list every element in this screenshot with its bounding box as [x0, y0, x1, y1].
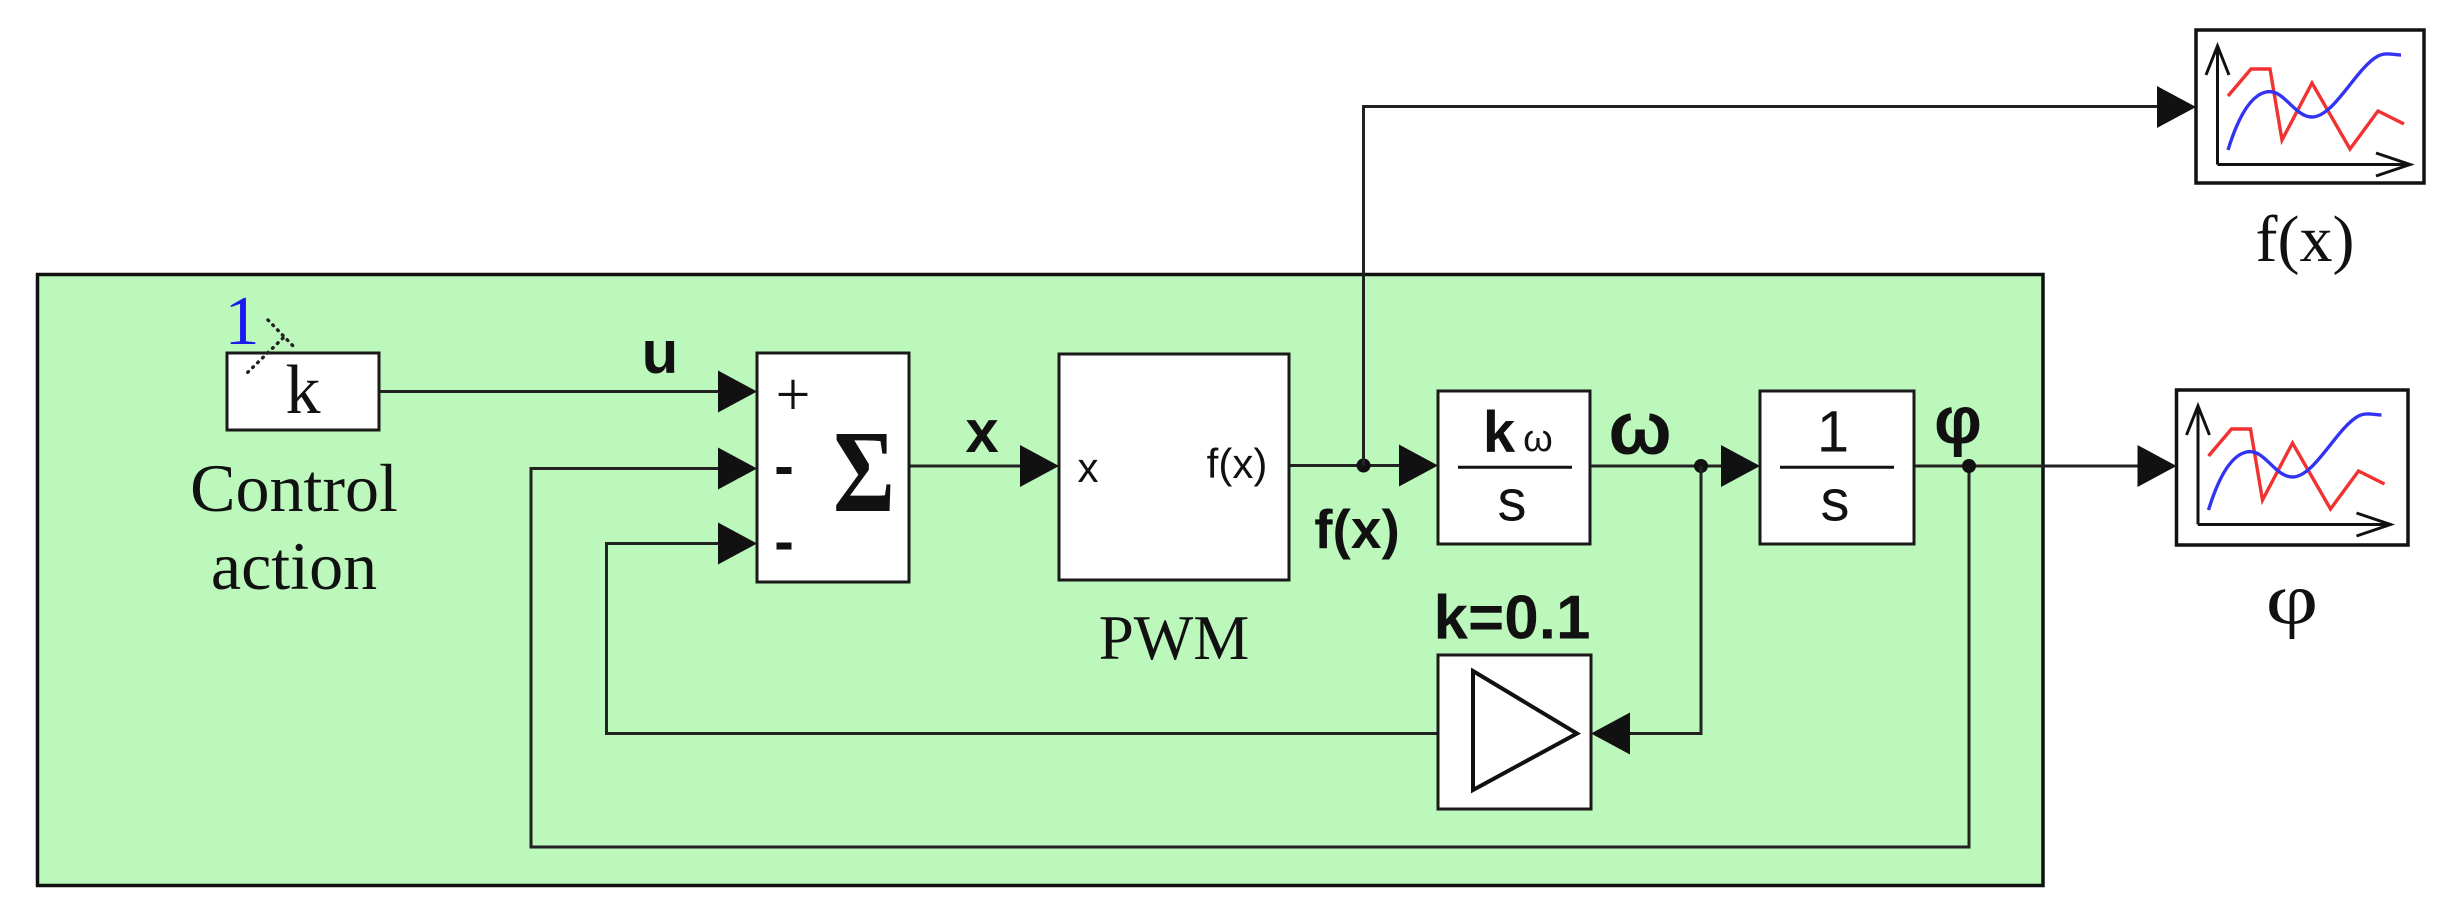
svg-text:action: action: [211, 528, 377, 604]
block k (control action gain): [227, 352, 379, 430]
svg-text:f(x): f(x): [1314, 498, 1400, 560]
wire: k block to sum input 1: [379, 371, 757, 413]
svg-text:1: 1: [225, 283, 260, 360]
svg-text:x: x: [965, 398, 998, 465]
wire: 1/s output to scope phi: [1914, 445, 2177, 487]
svg-text:s: s: [1821, 469, 1850, 534]
annotation connector line: [246, 320, 296, 374]
svg-text:s: s: [1498, 469, 1527, 534]
wire: gain output to sum input 3: [607, 523, 1439, 734]
svg-text:k: k: [286, 352, 321, 429]
scope phi block: [2177, 390, 2409, 545]
svg-text:ω: ω: [1523, 418, 1553, 460]
svg-text:φ: φ: [1934, 383, 1982, 458]
scope f(x) block: [2196, 30, 2424, 183]
node omega junction dot: [1694, 459, 1708, 473]
svg-text:f(x): f(x): [2256, 203, 2355, 276]
svg-text:k: k: [1483, 400, 1516, 465]
wire: sum output to PWM input: [909, 445, 1059, 487]
label Control action: [190, 450, 398, 604]
svg-text:PWM: PWM: [1099, 603, 1250, 673]
block k_omega/s (transfer function): [1438, 391, 1590, 544]
wire: f(x) branch up to scope f(x): [1364, 86, 2197, 466]
block PWM: [1059, 354, 1289, 580]
wire: PWM output to k_omega/s input: [1289, 445, 1438, 487]
svg-text:+: +: [776, 361, 811, 429]
svg-text:k=0.1: k=0.1: [1434, 584, 1591, 653]
svg-text:Control: Control: [190, 450, 398, 526]
svg-text:Σ: Σ: [833, 407, 895, 537]
subsystem background box (green): [38, 275, 2044, 886]
wire: omega feedback down to gain input: [1591, 466, 1701, 755]
block 1/s (integrator): [1760, 391, 1914, 544]
svg-text:ω: ω: [1608, 386, 1671, 470]
block gain k=0.1: [1438, 655, 1591, 809]
sum block U1: [757, 353, 909, 582]
node f(x) junction dot: [1357, 459, 1371, 473]
svg-text:1: 1: [1817, 400, 1849, 465]
svg-text:u: u: [642, 319, 679, 386]
node phi junction dot: [1962, 459, 1976, 473]
svg-text:f(x): f(x): [1207, 440, 1268, 487]
svg-text:x: x: [1078, 444, 1099, 491]
svg-text:φ: φ: [2266, 558, 2319, 639]
wire: k_omega/s output to 1/s input: [1590, 445, 1760, 487]
wire: phi feedback (bottom long loop) to sum input 2: [531, 448, 1969, 848]
